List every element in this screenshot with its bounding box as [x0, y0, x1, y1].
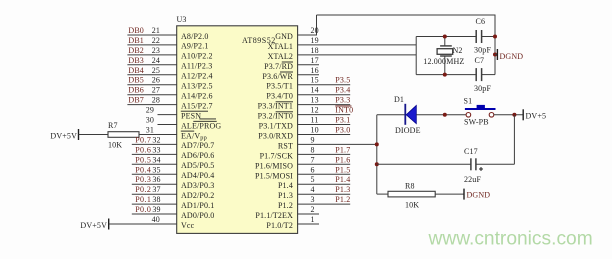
wire net P3.5 pin 15 [298, 76, 351, 85]
wire net P0.7 to pin 32 [132, 135, 177, 144]
svg-text:AD0/P0.0: AD0/P0.0 [181, 211, 214, 220]
svg-text:A14/P2.6: A14/P2.6 [181, 92, 213, 101]
svg-text:3: 3 [311, 195, 315, 204]
svg-text:31: 31 [146, 126, 154, 135]
svg-text:P1.6/MISO: P1.6/MISO [255, 161, 293, 170]
svg-text:A13/P2.5: A13/P2.5 [181, 82, 213, 91]
wire XTAL2 pin 18 [298, 46, 417, 55]
svg-text:DB5: DB5 [128, 76, 144, 85]
svg-text:40: 40 [152, 215, 160, 224]
svg-text:P0.2: P0.2 [135, 185, 151, 194]
wire RST pin 9 to reset node [298, 135, 377, 144]
svg-text:A11/P2.3: A11/P2.3 [181, 62, 212, 71]
svg-text:38: 38 [152, 195, 160, 204]
svg-text:A15/P2.7: A15/P2.7 [181, 101, 213, 110]
wire GND top rail [317, 15, 496, 75]
svg-text:8: 8 [311, 145, 315, 154]
ground DGND (reset) [464, 189, 490, 200]
svg-text:P0.0: P0.0 [135, 205, 151, 214]
resistor R7 [108, 121, 139, 137]
wire net P3.1 pin 11 [298, 116, 351, 125]
svg-text:7: 7 [311, 155, 315, 164]
svg-text:P0.7: P0.7 [135, 135, 151, 144]
svg-text:AD7/P0.7: AD7/P0.7 [181, 141, 214, 150]
svg-text:P1.0/T2: P1.0/T2 [266, 221, 293, 230]
svg-text:30: 30 [146, 116, 154, 125]
svg-text:P0.3: P0.3 [135, 175, 151, 184]
IC right pin names column [255, 32, 294, 230]
svg-text:21: 21 [152, 26, 160, 35]
svg-text:P1.2: P1.2 [278, 201, 293, 210]
svg-text:P1.2: P1.2 [335, 195, 350, 204]
svg-text:XTAL1: XTAL1 [268, 42, 293, 51]
wire net DB0 to pin 21 [127, 26, 176, 35]
wire net INT0 pin 12 [298, 106, 354, 115]
svg-text:C7: C7 [475, 56, 485, 65]
svg-text:GND: GND [275, 32, 293, 41]
svg-text:34: 34 [152, 155, 160, 164]
svg-text:AD5/P0.5: AD5/P0.5 [181, 161, 214, 170]
wire net P0.0 to pin 39 [132, 205, 177, 214]
svg-text:DB3: DB3 [128, 56, 144, 65]
wire diode to switch S1 [416, 114, 466, 116]
svg-text:16: 16 [311, 66, 319, 75]
svg-text:P3.4/T0: P3.4/T0 [266, 92, 293, 101]
node diode-switch junction [443, 113, 447, 117]
svg-text:20: 20 [311, 26, 319, 35]
diode D1 [394, 95, 416, 125]
svg-text:32: 32 [152, 135, 160, 144]
wire net DB5 to pin 26 [127, 76, 176, 85]
svg-text:P0.4: P0.4 [135, 165, 151, 174]
svg-text:19: 19 [311, 36, 319, 45]
svg-text:DV+5V: DV+5V [50, 132, 77, 141]
svg-text:P1.7: P1.7 [335, 145, 350, 154]
wire net DB1 to pin 22 [127, 36, 176, 45]
node C17 left junction [375, 162, 379, 166]
svg-text:A12/P2.4: A12/P2.4 [181, 72, 213, 81]
svg-text:P3.3: P3.3 [335, 96, 350, 105]
svg-text:AD1/P0.1: AD1/P0.1 [181, 201, 214, 210]
wire net P3.3 pin 13 [298, 96, 351, 105]
power port DV+5V (left) [50, 129, 78, 141]
svg-text:INT0: INT0 [335, 106, 353, 115]
svg-text:10: 10 [311, 126, 319, 135]
wire DV+5V to pin 40 Vcc [109, 215, 177, 224]
svg-text:D1: D1 [394, 95, 404, 104]
svg-text:10K: 10K [405, 201, 419, 210]
capacitor C7 [475, 56, 485, 81]
svg-text:P0.1: P0.1 [135, 195, 151, 204]
svg-text:P1.6: P1.6 [335, 155, 350, 164]
wire pin 29 stub [146, 106, 177, 115]
svg-text:P1.7/SCK: P1.7/SCK [260, 151, 294, 160]
svg-text:P3.7/RD: P3.7/RD [264, 62, 293, 71]
svg-text:23: 23 [152, 46, 160, 55]
svg-text:25: 25 [152, 66, 160, 75]
svg-text:26: 26 [152, 76, 160, 85]
wire net P3.4 pin 14 [298, 86, 351, 95]
svg-text:2: 2 [311, 205, 315, 214]
svg-text:AD2/P0.2: AD2/P0.2 [181, 191, 214, 200]
svg-text:P3.5/T1: P3.5/T1 [266, 82, 293, 91]
svg-text:P3.2/INT0: P3.2/INT0 [258, 112, 293, 121]
svg-text:DV+5: DV+5 [526, 112, 547, 121]
svg-text:P1.5: P1.5 [335, 165, 350, 174]
wire cap C17 right vertical [513, 115, 515, 165]
svg-text:14: 14 [311, 86, 319, 95]
svg-text:12.000MHZ: 12.000MHZ [423, 57, 464, 66]
node switch-cap junction [512, 113, 516, 117]
svg-text:ALE/PROG: ALE/PROG [181, 121, 221, 130]
wire net P0.5 to pin 34 [132, 155, 177, 164]
svg-text:29: 29 [146, 106, 154, 115]
svg-text:P3.1: P3.1 [335, 116, 350, 125]
svg-text:A8/P2.0: A8/P2.0 [181, 32, 209, 41]
svg-text:R7: R7 [108, 121, 118, 130]
svg-text:33: 33 [152, 145, 160, 154]
wire C17 row [377, 163, 515, 165]
svg-text:U3: U3 [177, 15, 187, 24]
crystal N2 [437, 37, 462, 75]
wire XTAL1 pin 19 [298, 36, 417, 45]
IC U3 AT89S52 body [177, 15, 298, 233]
svg-text:DB1: DB1 [128, 36, 144, 45]
wire net P0.1 to pin 38 [132, 195, 177, 204]
wire net P0.3 to pin 36 [132, 175, 177, 184]
svg-text:13: 13 [311, 96, 319, 105]
svg-text:DV+5V: DV+5V [80, 221, 107, 230]
svg-text:5: 5 [311, 175, 315, 184]
svg-text:C17: C17 [464, 147, 478, 156]
wire net P1.3 pin 4 [298, 185, 351, 194]
svg-text:P3.1/TXD: P3.1/TXD [259, 122, 293, 131]
wire net P0.2 to pin 37 [132, 185, 177, 194]
power port DV+5V (bottom left) [80, 219, 108, 231]
svg-text:P0.6: P0.6 [135, 145, 151, 154]
svg-text:AD6/P0.6: AD6/P0.6 [181, 151, 214, 160]
svg-text:4: 4 [311, 185, 315, 194]
wire pin 20 GND stub and riser [298, 15, 319, 35]
svg-text:P1.1/T2EX: P1.1/T2EX [255, 211, 293, 220]
svg-text:DGND: DGND [500, 52, 524, 61]
svg-text:P0.5: P0.5 [135, 155, 151, 164]
wire net P1.6 pin 7 [298, 155, 351, 164]
node DGND tap junction [493, 53, 497, 57]
svg-text:P1.3: P1.3 [278, 191, 293, 200]
svg-text:37: 37 [152, 185, 160, 194]
node crystal bottom junction [443, 73, 447, 77]
svg-text:39: 39 [152, 205, 160, 214]
wire net DB3 to pin 24 [127, 56, 176, 65]
wire crystal left vertical [415, 37, 417, 75]
capacitor C6 [476, 17, 486, 43]
svg-text:XTAL2: XTAL2 [268, 52, 293, 61]
svg-text:12: 12 [311, 106, 319, 115]
svg-text:P3.6/WR: P3.6/WR [262, 72, 293, 81]
wire net P3.0 pin 10 [298, 126, 351, 135]
svg-text:AD4/P0.4: AD4/P0.4 [181, 171, 214, 180]
svg-text:27: 27 [152, 86, 160, 95]
wire reset node to R8 [377, 193, 388, 195]
wire net DB7 to pin 28 [127, 96, 176, 105]
wire net DB4 to pin 25 [127, 66, 176, 75]
svg-text:N2: N2 [453, 46, 463, 55]
svg-text:www.cntronics.com: www.cntronics.com [428, 229, 593, 250]
wire switch to DV+5 port [494, 114, 523, 116]
wire pin 16 stub [298, 66, 319, 75]
svg-text:36: 36 [152, 175, 160, 184]
svg-text:P3.5: P3.5 [335, 76, 350, 85]
svg-text:DB7: DB7 [128, 96, 144, 105]
wire net P1.5 pin 6 [298, 165, 351, 174]
svg-text:A10/P2.2: A10/P2.2 [181, 52, 213, 61]
wire net P0.4 to pin 35 [132, 165, 177, 174]
switch S1 SW-PB [464, 97, 496, 118]
svg-text:DB0: DB0 [128, 26, 144, 35]
wire pin 30 stub [146, 116, 177, 125]
IC left pin names column [181, 32, 222, 230]
svg-text:22uF: 22uF [464, 175, 481, 184]
svg-text:S1: S1 [464, 97, 473, 106]
svg-text:C6: C6 [476, 17, 486, 26]
wire pin 1 stub [298, 215, 319, 224]
svg-text:1: 1 [311, 215, 315, 224]
power port DV+5 (right) [523, 109, 546, 120]
wire C7 row bottom [416, 74, 495, 76]
svg-text:P3.0/RXD: P3.0/RXD [258, 132, 293, 141]
wire R7 to pin 31 [139, 126, 177, 135]
svg-text:6: 6 [311, 165, 315, 174]
svg-text:P3.3/INT1: P3.3/INT1 [258, 102, 293, 111]
svg-text:35: 35 [152, 165, 160, 174]
wire diode row left [377, 114, 406, 116]
wire net P1.7 pin 8 [298, 145, 351, 154]
svg-text:R8: R8 [405, 182, 415, 191]
svg-text:30pF: 30pF [474, 84, 491, 93]
svg-text:9: 9 [311, 135, 315, 144]
ground DGND (crystal) [495, 49, 523, 61]
wire C6 row top [416, 36, 495, 38]
svg-text:DGND: DGND [467, 191, 491, 200]
svg-text:A9/P2.1: A9/P2.1 [181, 42, 209, 51]
svg-text:PESN: PESN [181, 111, 201, 120]
svg-text:24: 24 [152, 56, 160, 65]
svg-text:DB6: DB6 [128, 86, 144, 95]
wire net DB6 to pin 27 [127, 86, 176, 95]
wire reset node vertical [376, 115, 378, 194]
svg-text:P1.4: P1.4 [278, 181, 293, 190]
node crystal top junction [443, 35, 447, 39]
svg-text:RST: RST [278, 141, 293, 150]
svg-text:18: 18 [311, 46, 319, 55]
node RST junction [375, 142, 379, 146]
svg-text:AD3/P0.3: AD3/P0.3 [181, 181, 214, 190]
wire net P0.6 to pin 33 [132, 145, 177, 154]
svg-text:SW-PB: SW-PB [464, 118, 489, 127]
svg-text:P3.0: P3.0 [335, 126, 350, 135]
svg-text:P1.4: P1.4 [335, 175, 350, 184]
wire pin 2 stub [298, 205, 319, 214]
resistor R8 [388, 182, 435, 197]
svg-text:10K: 10K [108, 141, 122, 150]
svg-text:DIODE: DIODE [395, 126, 421, 135]
svg-text:22: 22 [152, 36, 160, 45]
wire net P1.4 pin 5 [298, 175, 351, 184]
svg-text:P1.5/MOSI: P1.5/MOSI [255, 171, 293, 180]
svg-text:15: 15 [311, 76, 319, 85]
svg-text:P1.3: P1.3 [335, 185, 350, 194]
wire pin 17 stub [298, 56, 319, 65]
svg-text:DB4: DB4 [128, 66, 144, 75]
capacitor C17 [464, 147, 483, 171]
wire net DB2 to pin 23 [127, 46, 176, 55]
svg-text:28: 28 [152, 96, 160, 105]
svg-text:17: 17 [311, 56, 319, 65]
svg-text:30pF: 30pF [474, 46, 491, 55]
svg-text:11: 11 [311, 116, 319, 125]
svg-text:Vcc: Vcc [181, 221, 195, 230]
svg-text:P3.4: P3.4 [335, 86, 350, 95]
node C6 right junction [493, 35, 497, 39]
wire DV+5V to R7 [79, 134, 109, 136]
wire R8 to DGND [435, 193, 464, 195]
svg-text:DB2: DB2 [128, 46, 144, 55]
wire net P1.2 pin 3 [298, 195, 351, 204]
